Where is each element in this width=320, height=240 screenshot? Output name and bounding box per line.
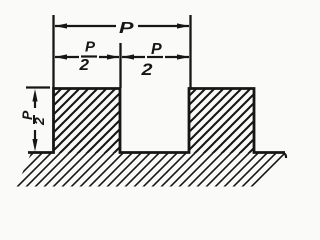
profile outline <box>28 89 285 153</box>
extension line right <box>189 15 191 88</box>
svg-text:P: P <box>119 20 134 37</box>
svg-text:2: 2 <box>78 57 89 74</box>
dimension P: left arrowhead <box>55 23 68 28</box>
svg-text:P: P <box>85 39 96 56</box>
dimension P/2 first: line left part <box>55 56 79 58</box>
base line end hook <box>284 153 287 158</box>
dimension P/2 second: fraction bar <box>147 56 163 58</box>
svg-text:2: 2 <box>140 61 152 79</box>
dimension P: right arrowhead <box>177 23 190 28</box>
hatched base strip <box>17 152 285 187</box>
dimension P/2 second: left arrowhead <box>122 54 135 59</box>
vertical dimension: upper shaft <box>34 95 36 108</box>
vertical dimension: up arrowhead <box>32 89 37 102</box>
dimension P: line left part <box>55 25 116 27</box>
extension line left <box>52 15 54 88</box>
hatched right tooth <box>190 88 254 153</box>
svg-text:2: 2 <box>31 117 47 126</box>
vertical dimension: lower shaft <box>34 130 36 146</box>
hatched left tooth <box>54 88 120 153</box>
extension line middle <box>119 43 121 88</box>
vertical dimension: rotated label P/2 <box>19 110 47 126</box>
vertical dimension: top tick <box>26 86 50 88</box>
dimension P/2 second: right arrowhead <box>177 54 190 59</box>
dimension P/2 first: right arrowhead <box>107 54 120 59</box>
dimension P: line right part <box>138 25 189 27</box>
dimension P/2 second: line left part <box>122 56 145 58</box>
dimension P/2 first: fraction bar <box>81 55 97 57</box>
dimension P/2 first: left arrowhead <box>55 54 68 59</box>
svg-text:P: P <box>151 41 162 58</box>
dimension P/2 second: line right part <box>165 56 189 58</box>
vertical dimension: down arrowhead <box>32 139 37 152</box>
dimension P/2 first: line right part <box>99 56 119 58</box>
